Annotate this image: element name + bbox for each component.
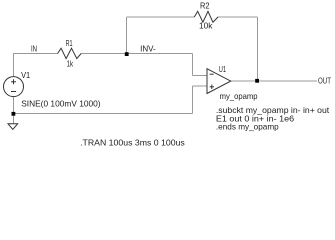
wire non-inverting input vertical bbox=[192, 86, 194, 114]
svg-text:my_opamp: my_opamp bbox=[220, 91, 258, 101]
resistor R1 bbox=[58, 48, 82, 58]
wire inverting input vertical bbox=[192, 54, 194, 76]
op-amp U1 triangle bbox=[207, 69, 231, 94]
wire top rail right of R2 bbox=[218, 16, 258, 18]
svg-text:V1: V1 bbox=[21, 70, 30, 80]
wire inverting input horizontal bbox=[193, 75, 208, 77]
svg-text:INV-: INV- bbox=[140, 44, 156, 54]
wire output bbox=[231, 80, 317, 82]
wire IN horizontal left bbox=[13, 53, 58, 55]
junction output node bbox=[255, 79, 259, 83]
resistor R2 bbox=[194, 11, 218, 22]
V1 plus sign bbox=[11, 79, 16, 84]
svg-text:IN: IN bbox=[31, 44, 37, 54]
junction INV- node bbox=[125, 52, 129, 56]
V1 minus sign bbox=[11, 91, 16, 93]
wire non-inverting input horizontal bbox=[193, 85, 208, 87]
svg-text:OUT: OUT bbox=[318, 75, 331, 85]
op-amp minus input marker bbox=[210, 73, 214, 75]
svg-text:R2: R2 bbox=[200, 1, 210, 11]
wire V1 bottom stub to ground bbox=[13, 97, 15, 124]
spice directive .subckt text block bbox=[216, 105, 330, 131]
svg-text:10k: 10k bbox=[199, 21, 213, 31]
ground bbox=[8, 124, 18, 130]
svg-text:1k: 1k bbox=[67, 59, 74, 69]
wire top rail left of R2 bbox=[127, 16, 195, 18]
wire V1 top stub bbox=[13, 54, 15, 77]
voltage source V1 circle bbox=[4, 77, 24, 97]
op-amp plus input marker bbox=[210, 85, 214, 89]
svg-text:R1: R1 bbox=[66, 38, 73, 48]
svg-text:SINE(0 100mV 1000): SINE(0 100mV 1000) bbox=[21, 99, 101, 109]
wire feedback vertical down to output bbox=[257, 17, 259, 81]
svg-text:.ends my_opamp: .ends my_opamp bbox=[216, 121, 279, 131]
junction ground rail bbox=[12, 112, 16, 116]
svg-text:.TRAN 100us 3ms 0 100us: .TRAN 100us 3ms 0 100us bbox=[80, 138, 185, 148]
wire bottom rail bbox=[14, 113, 193, 115]
wire R1 to INV- junction bbox=[81, 53, 193, 55]
wire INV- junction up bbox=[126, 17, 128, 54]
svg-text:U1: U1 bbox=[219, 64, 226, 74]
